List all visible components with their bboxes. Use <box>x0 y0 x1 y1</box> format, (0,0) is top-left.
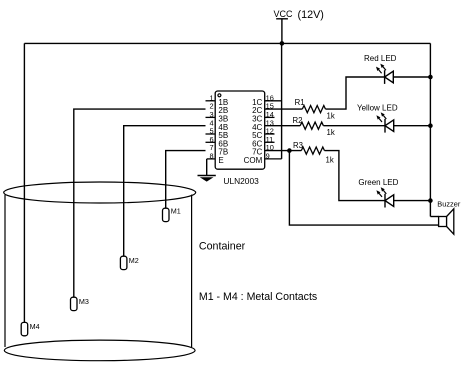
resistor R2 <box>293 116 335 137</box>
svg-text:R1: R1 <box>295 98 305 107</box>
node junction on top rail <box>280 41 285 46</box>
svg-text:E: E <box>218 156 223 165</box>
svg-text:1k: 1k <box>326 156 334 165</box>
wire right rail <box>429 43 431 216</box>
wire left rail down to M4 <box>23 43 25 322</box>
LED green <box>376 187 393 207</box>
svg-text:M3: M3 <box>79 297 89 306</box>
svg-text:Container: Container <box>199 240 246 252</box>
wire top VCC rail <box>24 42 430 44</box>
svg-text:R2: R2 <box>293 116 303 125</box>
wire R1 to red LED <box>326 77 385 109</box>
svg-text:Green LED: Green LED <box>358 178 398 187</box>
resistor R3 <box>293 141 334 165</box>
wire R3 to green LED <box>325 151 386 201</box>
svg-text:8: 8 <box>209 152 213 161</box>
resistor R1 <box>295 98 335 120</box>
wire pin15 to R1 <box>265 108 303 110</box>
metal contact M4 <box>21 322 39 336</box>
svg-text:M2: M2 <box>129 256 139 265</box>
svg-text:M1 - M4 : Metal Contacts: M1 - M4 : Metal Contacts <box>199 291 317 303</box>
LED red <box>376 64 393 84</box>
wire yellow LED to right rail <box>394 125 431 127</box>
wire pin10 to R3 <box>265 150 302 152</box>
svg-text:R3: R3 <box>293 141 303 150</box>
wire right rail to buzzer top <box>430 216 438 218</box>
node junction R3 branch <box>287 148 292 153</box>
wire pin9 COM to VCC vertical <box>265 158 282 160</box>
pin labels right <box>244 98 263 165</box>
svg-text:Yellow LED: Yellow LED <box>357 103 398 112</box>
node junction red <box>428 75 433 80</box>
pin numbers right <box>266 93 274 160</box>
wire R2 to yellow LED <box>323 125 385 127</box>
wire M1 to pin 7B <box>166 151 206 209</box>
svg-text:1k: 1k <box>327 112 335 121</box>
node junction yellow <box>428 123 433 128</box>
node junction green <box>428 198 433 203</box>
svg-text:M4: M4 <box>30 322 40 331</box>
pin 1 indicator <box>218 94 221 97</box>
svg-text:M1: M1 <box>171 206 181 215</box>
ground <box>198 159 216 182</box>
op-amp U1 ULN2003 body <box>215 91 265 169</box>
svg-text:VCC: VCC <box>274 9 294 19</box>
pin stubs right <box>265 117 275 142</box>
wire pin13 to R2 <box>265 125 301 127</box>
svg-text:ULN2003: ULN2003 <box>223 176 259 186</box>
metal contact M1 <box>163 206 181 221</box>
wire buzzer branch <box>289 151 438 226</box>
wire M3 to pin 2B <box>74 109 206 297</box>
wire red LED to right rail <box>393 76 430 78</box>
svg-text:COM: COM <box>244 156 263 165</box>
wire VCC vertical to IC <box>281 43 283 158</box>
wire VCC drop <box>281 19 283 44</box>
buzzer <box>437 200 461 235</box>
svg-text:1k: 1k <box>327 128 335 137</box>
svg-text:(12V): (12V) <box>298 9 324 21</box>
pin labels left <box>218 98 228 165</box>
wire green LED to right rail <box>394 200 431 202</box>
power terminal VCC <box>274 9 324 21</box>
wire M2 to pin 4B <box>124 126 206 257</box>
wire pin16 to VCC vertical <box>265 100 282 102</box>
svg-text:Buzzer: Buzzer <box>437 200 461 209</box>
svg-text:Red LED: Red LED <box>364 54 397 63</box>
pin numbers left <box>209 93 213 160</box>
metal contact M3 <box>71 297 89 311</box>
container <box>4 182 196 361</box>
pin stubs left <box>206 101 216 159</box>
metal contact M2 <box>120 256 138 270</box>
LED yellow <box>376 112 393 132</box>
